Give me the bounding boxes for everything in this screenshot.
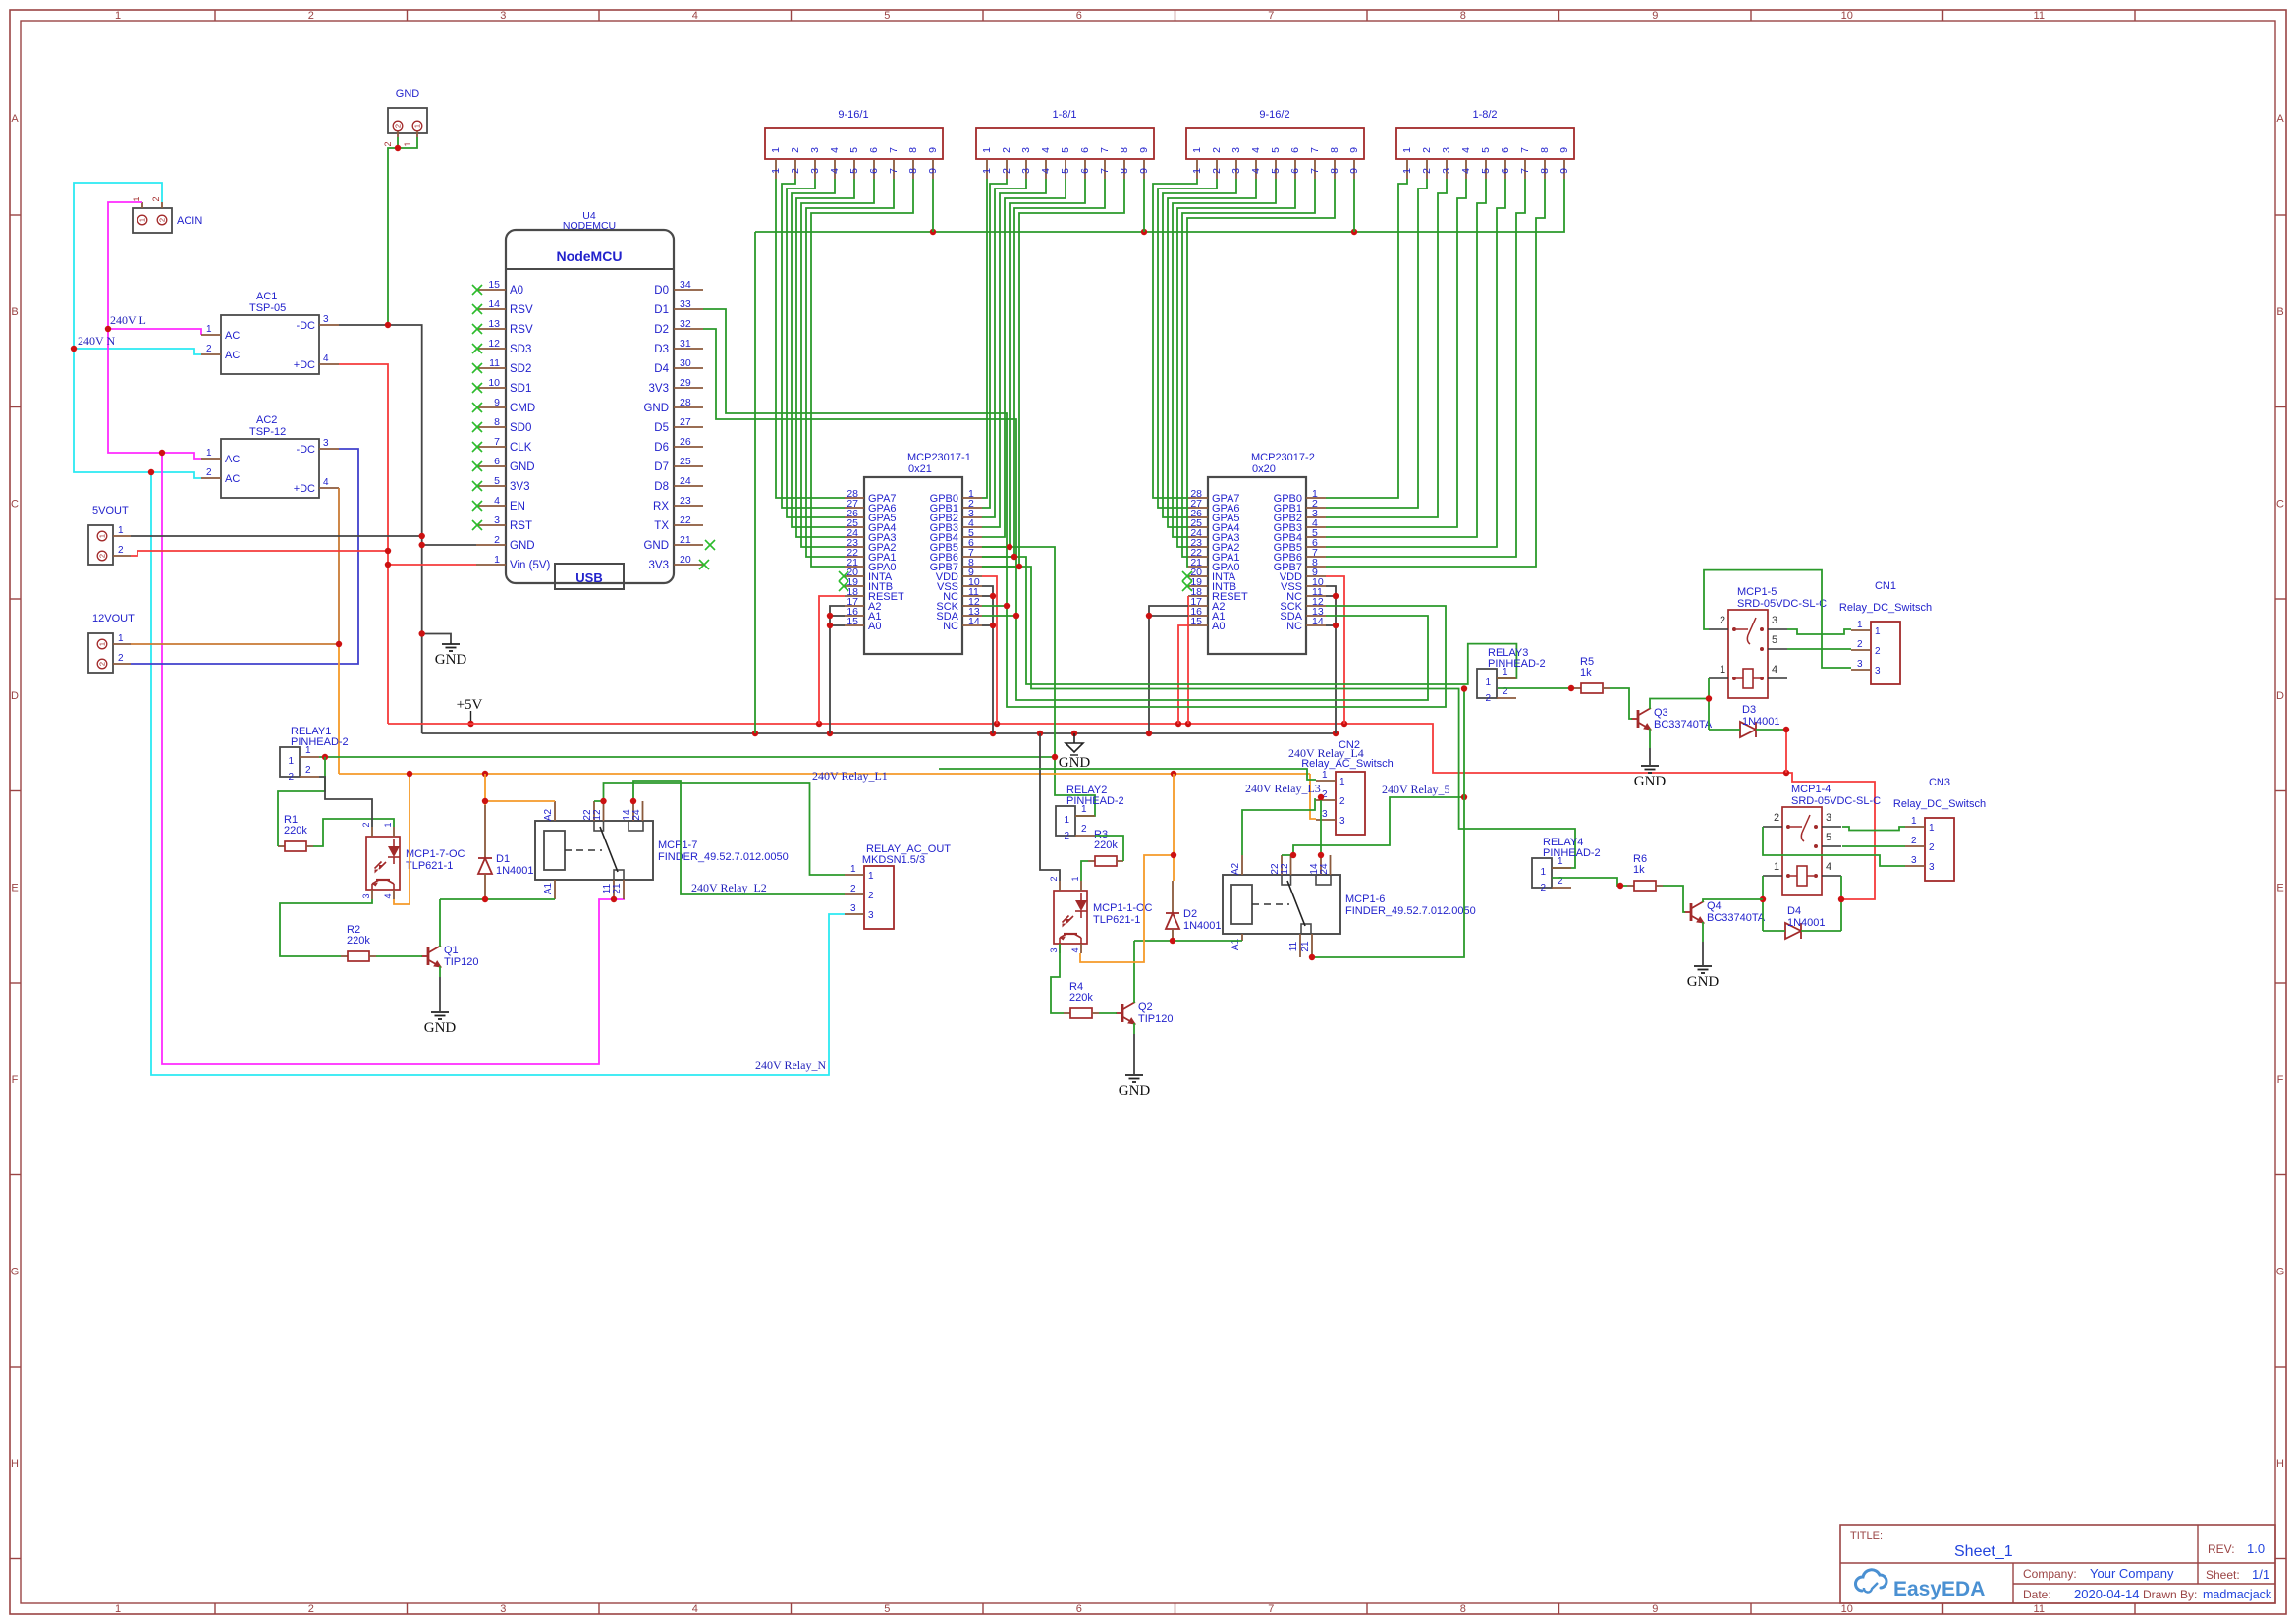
connector 5VOUT: [88, 505, 131, 565]
svg-text:5: 5: [1772, 634, 1777, 646]
wire H3 pin7 to MCP2 GPA: [1182, 179, 1315, 557]
svg-text:1: 1: [1774, 861, 1779, 873]
diode D1 1N4001: [478, 805, 534, 899]
svg-text:1N4001: 1N4001: [496, 865, 534, 877]
svg-text:G: G: [11, 1266, 20, 1277]
wire H4 pin2 to MCP2 GPB: [1326, 179, 1427, 508]
svg-text:220k: 220k: [284, 825, 307, 837]
junction 12v node: [336, 641, 342, 647]
wire L3: A2 to CN2 pin2: [1242, 799, 1316, 855]
svg-text:1: 1: [1558, 856, 1563, 867]
IC MCP23017-1 0x21: [839, 452, 982, 654]
svg-text:7: 7: [1309, 147, 1321, 153]
junction GND hdr: [395, 145, 401, 151]
svg-text:SRD-05VDC-SL-C: SRD-05VDC-SL-C: [1791, 795, 1881, 807]
svg-text:1-8/2: 1-8/2: [1472, 109, 1497, 121]
svg-text:11: 11: [1288, 941, 1299, 951]
svg-text:4: 4: [829, 147, 841, 153]
wire D3 left: [1709, 729, 1740, 731]
wire H2 pin7 to MCP1 GPB: [982, 179, 1105, 557]
svg-text:2: 2: [98, 554, 107, 558]
resistor R3 220k: [1088, 829, 1123, 866]
relay MCP1-6 FINDER: [1223, 855, 1476, 957]
wire MCP2 NC11 spur: [1326, 595, 1336, 597]
svg-text:Relay_DC_Switsch: Relay_DC_Switsch: [1839, 602, 1932, 614]
svg-text:240V Relay_N: 240V Relay_N: [755, 1058, 826, 1072]
transistor Q1 TIP120: [421, 945, 478, 968]
wire MCP1 RESET to +5V: [819, 596, 845, 724]
wire L1: relay contact to AC out pin1: [594, 783, 845, 875]
svg-text:240V L: 240V L: [110, 313, 146, 327]
svg-text:4: 4: [323, 353, 329, 364]
svg-text:32: 32: [680, 318, 691, 330]
junction L2: [630, 798, 636, 804]
svg-text:11: 11: [2034, 1603, 2045, 1615]
svg-text:2: 2: [868, 891, 874, 901]
svg-text:5: 5: [1060, 147, 1071, 153]
svg-text:1: 1: [118, 525, 124, 536]
svg-text:1: 1: [403, 141, 412, 146]
svg-text:1: 1: [1857, 620, 1863, 630]
wire SDA from D2: [703, 329, 1016, 616]
wire 12VOUT pin1: [131, 643, 339, 645]
svg-text:3: 3: [850, 903, 856, 914]
wire coil1 vertical: [1708, 678, 1710, 730]
svg-text:6: 6: [1079, 147, 1091, 153]
svg-text:8: 8: [1119, 147, 1130, 153]
svg-text:2: 2: [1064, 831, 1069, 841]
svg-text:2: 2: [790, 168, 801, 174]
net label 240V Relay_5: [1382, 783, 1449, 796]
wire A2 feed orange: [485, 800, 555, 802]
svg-text:FINDER_49.52.7.012.0050: FINDER_49.52.7.012.0050: [1345, 905, 1476, 917]
svg-text:1-8/1: 1-8/1: [1052, 109, 1076, 121]
svg-text:2: 2: [394, 124, 403, 128]
svg-text:9: 9: [1558, 147, 1570, 153]
svg-text:3: 3: [1441, 147, 1452, 153]
svg-text:A: A: [11, 113, 19, 125]
wire D4 right: [1801, 930, 1841, 932]
junction coil4: [1760, 896, 1844, 902]
svg-text:26: 26: [680, 436, 691, 448]
wire R1 to opto1 pin1: [313, 819, 394, 846]
svg-text:D7: D7: [654, 461, 669, 473]
svg-text:A0: A0: [510, 285, 523, 297]
svg-text:3: 3: [1772, 615, 1777, 626]
svg-text:EN: EN: [510, 501, 525, 513]
svg-text:TX: TX: [654, 520, 669, 532]
wire H3 pin6 to MCP2 GPA: [1177, 179, 1295, 547]
svg-text:3: 3: [1322, 809, 1328, 820]
wire relay5 bottom 11/21: [1312, 689, 1464, 958]
svg-text:PINHEAD-2: PINHEAD-2: [1066, 795, 1124, 807]
svg-text:AC1: AC1: [256, 291, 277, 302]
svg-text:3: 3: [1911, 855, 1917, 866]
junction r5c: [1309, 685, 1467, 960]
svg-text:4: 4: [1460, 168, 1472, 174]
wire opto2 pin4 orange: [1080, 855, 1174, 962]
junction AC nets: [71, 326, 165, 475]
svg-text:3: 3: [1441, 168, 1452, 174]
optocoupler MCP1-7-OC TLP621-1: [361, 822, 465, 899]
svg-text:RSV: RSV: [510, 324, 533, 336]
svg-text:4: 4: [1460, 147, 1472, 153]
svg-text:Vin (5V): Vin (5V): [510, 560, 551, 571]
wire MCP1-5 pin3 to CN1 pin1: [1787, 629, 1851, 634]
svg-text:A2: A2: [1230, 862, 1241, 875]
svg-text:1: 1: [981, 147, 993, 153]
svg-text:5: 5: [1060, 168, 1071, 174]
wire SDA to MCP2: [1016, 616, 1428, 700]
svg-text:MKDSN1.5/3: MKDSN1.5/3: [862, 854, 925, 866]
svg-text:2020-04-14: 2020-04-14: [2074, 1587, 2140, 1601]
svg-text:24: 24: [680, 475, 691, 487]
svg-text:5: 5: [884, 1603, 890, 1615]
svg-text:9: 9: [1138, 168, 1150, 174]
svg-text:TSP-12: TSP-12: [249, 426, 286, 438]
optocoupler MCP1-1-OC TLP621-1: [1049, 876, 1153, 953]
wire 240V N to AC1 pin2: [74, 349, 201, 354]
svg-text:D4: D4: [654, 363, 669, 375]
wire orange trunk: [339, 773, 1310, 775]
svg-text:21: 21: [612, 883, 623, 894]
svg-text:D2: D2: [654, 324, 669, 336]
wire 12V rail orange down: [338, 644, 340, 774]
svg-text:8: 8: [494, 416, 500, 428]
svg-text:0x21: 0x21: [908, 463, 932, 475]
wire Q4 emitter green: [1702, 922, 1704, 942]
svg-text:-DC: -DC: [296, 444, 315, 456]
svg-text:1: 1: [1070, 876, 1080, 881]
junction +5V: [467, 721, 473, 727]
svg-text:1: 1: [305, 745, 311, 756]
svg-text:EasyEDA: EasyEDA: [1893, 1578, 1985, 1600]
connector ACIN: [132, 196, 202, 233]
+5V symbol: [457, 697, 483, 724]
svg-text:7: 7: [1099, 147, 1111, 153]
svg-text:D8: D8: [654, 481, 669, 493]
svg-text:MCP1-7: MCP1-7: [658, 839, 697, 851]
wire H2 pin6 to MCP1 GPB: [982, 179, 1085, 547]
ground symbol Q4: [1687, 966, 1720, 990]
svg-text:2: 2: [383, 141, 393, 146]
svg-text:GND: GND: [1687, 974, 1720, 990]
wire trunk drop to GND rail: [754, 232, 756, 733]
junction d2 top: [1171, 852, 1176, 858]
wire ACIN pin2 240V N: [74, 183, 201, 478]
power module AC2 TSP-12: [201, 414, 339, 498]
svg-text:6: 6: [868, 147, 880, 153]
wire H3 pin1 to MCP2 GPA: [1153, 179, 1197, 498]
svg-text:9: 9: [1652, 1603, 1658, 1615]
svg-text:RSV: RSV: [510, 304, 533, 316]
wire H2 pin1 to MCP1 GPB: [982, 179, 987, 498]
svg-text:9: 9: [1348, 147, 1360, 153]
svg-text:34: 34: [680, 279, 691, 291]
wire MCP1 A0 spur: [830, 624, 845, 626]
wire opto2 pin3 to R4: [1051, 944, 1064, 1013]
svg-text:FINDER_49.52.7.012.0050: FINDER_49.52.7.012.0050: [658, 851, 789, 863]
wire coil4 vertical 2: [1840, 876, 1842, 931]
svg-text:1: 1: [1911, 816, 1917, 827]
svg-text:5: 5: [848, 147, 860, 153]
svg-text:2: 2: [1485, 693, 1491, 704]
svg-text:1: 1: [1191, 147, 1203, 153]
wire RELAY4 pin2 to R6: [1552, 878, 1627, 886]
svg-text:3: 3: [500, 1603, 506, 1615]
svg-text:33: 33: [680, 298, 691, 310]
wire R5 to Q3 base: [1610, 688, 1632, 719]
svg-text:12: 12: [1280, 863, 1290, 875]
wire GND rail: [422, 732, 1336, 734]
svg-text:4: 4: [1040, 168, 1052, 174]
svg-text:ACIN: ACIN: [177, 215, 202, 227]
svg-text:6: 6: [868, 168, 880, 174]
svg-text:3: 3: [1049, 947, 1059, 952]
svg-text:29: 29: [680, 377, 691, 389]
wire R2 to Q1 base: [376, 955, 422, 957]
svg-text:3: 3: [1826, 812, 1831, 824]
svg-text:6: 6: [494, 456, 500, 467]
svg-text:A0: A0: [1212, 621, 1225, 632]
svg-text:11: 11: [489, 357, 500, 369]
wire Q2 emitter dark: [1133, 1034, 1135, 1074]
IC MCP23017-2 0x20: [1182, 452, 1326, 654]
svg-text:15: 15: [847, 616, 858, 627]
diode D3 1N4001: [1740, 704, 1780, 737]
wire L4: long to CN2 pin1: [939, 769, 1316, 780]
svg-text:CMD: CMD: [510, 403, 535, 414]
wire H2 pin3 to MCP1 GPB: [982, 179, 1026, 517]
wire MCP2 A2/A1 to GND: [1149, 606, 1188, 733]
svg-text:RX: RX: [653, 501, 669, 513]
svg-text:1: 1: [1064, 815, 1069, 826]
junction d3: [1783, 727, 1789, 732]
svg-text:22: 22: [680, 514, 691, 526]
connector CN1 Relay_DC_Switsch: [1839, 580, 1932, 684]
junction r5b: [1318, 794, 1467, 858]
svg-text:AC: AC: [225, 454, 240, 465]
power module AC1 TSP-05: [201, 291, 339, 374]
svg-text:2: 2: [1720, 615, 1725, 626]
svg-text:4: 4: [1826, 861, 1831, 873]
svg-text:GND: GND: [643, 540, 669, 552]
wire AC2 +DC to 12V pin1: [338, 488, 340, 644]
wire MCP2 RESET to +5V: [1187, 596, 1189, 724]
svg-text:10: 10: [1841, 1603, 1853, 1615]
wire MCP1 A1 spur: [830, 615, 845, 617]
junction r5 in: [1568, 685, 1574, 691]
svg-text:PINHEAD-2: PINHEAD-2: [1543, 847, 1601, 859]
svg-text:BC33740TA: BC33740TA: [1707, 912, 1766, 924]
svg-text:5: 5: [848, 168, 860, 174]
svg-text:5VOUT: 5VOUT: [92, 505, 129, 516]
wire R6 to Q4 base: [1663, 886, 1685, 912]
wire AC1 +DC: [339, 364, 388, 724]
svg-text:2: 2: [288, 772, 294, 783]
wire MCP2 VSS chain: [1326, 586, 1336, 733]
svg-text:1: 1: [1322, 770, 1328, 781]
svg-text:+5V: +5V: [457, 697, 483, 713]
svg-text:2: 2: [158, 218, 167, 222]
svg-text:1: 1: [383, 822, 393, 827]
wire H4 pin4 to MCP2 GPB: [1326, 179, 1466, 527]
net label 240V Relay_L1: [812, 769, 888, 783]
svg-text:7: 7: [1519, 147, 1531, 153]
svg-text:AC: AC: [225, 350, 240, 361]
svg-text:AC: AC: [225, 473, 240, 485]
junction r5a: [1290, 852, 1296, 858]
wire H2 pin5 to MCP1 GPB: [982, 179, 1066, 537]
wire 5VOUT pin1 GND net: [131, 535, 422, 537]
wire GND sym branch: [422, 634, 451, 643]
svg-text:madmacjack: madmacjack: [2203, 1588, 2272, 1601]
transistor Q4 BC33740TA: [1684, 900, 1766, 924]
svg-text:3: 3: [361, 893, 371, 898]
svg-text:1: 1: [1503, 667, 1508, 677]
svg-text:G: G: [2276, 1266, 2285, 1277]
svg-text:E: E: [2276, 882, 2283, 893]
svg-text:MCP1-7-OC: MCP1-7-OC: [406, 848, 465, 860]
junction rail joints: [816, 721, 1789, 776]
wire RELAY2 pin2 to R3: [1095, 836, 1123, 861]
svg-text:4: 4: [494, 495, 500, 507]
svg-text:H: H: [2276, 1458, 2284, 1470]
resistor R6 1k: [1627, 853, 1663, 891]
wire SCK from D1: [703, 309, 1007, 606]
wire Q2 collector: [1133, 941, 1135, 1003]
svg-text:Company:: Company:: [2023, 1567, 2077, 1581]
connector CN3 Relay_DC_Switsch: [1893, 777, 1986, 881]
wire H4 pin7 to MCP2 GPB: [1326, 179, 1525, 557]
svg-text:8: 8: [1119, 168, 1130, 174]
svg-text:9: 9: [1348, 168, 1360, 174]
svg-text:D3: D3: [1742, 704, 1756, 716]
wire MCP1 GPB7 to RELAY4: [982, 567, 1575, 868]
svg-text:9: 9: [927, 147, 939, 153]
wire ACIN pin1 240V L: [108, 202, 201, 335]
net label 240V Relay_L4: [1288, 746, 1364, 760]
svg-text:F: F: [2277, 1074, 2284, 1086]
svg-text:TITLE:: TITLE:: [1850, 1530, 1883, 1542]
svg-text:1: 1: [770, 168, 782, 174]
svg-text:9: 9: [1138, 147, 1150, 153]
svg-text:10: 10: [1841, 10, 1853, 22]
wire MCP2 A0 to +5V: [1178, 625, 1188, 724]
connector GND header: [383, 88, 427, 147]
wire H1 pin1 to MCP1 GPA: [776, 179, 845, 498]
svg-text:11: 11: [2034, 10, 2045, 22]
svg-text:1: 1: [981, 168, 993, 174]
svg-text:7: 7: [888, 147, 900, 153]
svg-text:1: 1: [132, 196, 141, 201]
svg-text:0x20: 0x20: [1252, 463, 1276, 475]
svg-text:2: 2: [118, 653, 124, 664]
junction gnd rail joints: [752, 731, 1339, 736]
svg-text:13: 13: [488, 318, 500, 330]
svg-text:7: 7: [1099, 168, 1111, 174]
svg-text:Q2: Q2: [1138, 1001, 1153, 1013]
svg-text:5: 5: [1270, 147, 1282, 153]
wire Q4 collector: [1703, 899, 1763, 902]
junction r6 in: [1617, 883, 1623, 889]
wire MCP2 A1 spur: [1149, 615, 1188, 617]
wire H1 pin6 to MCP1 GPA: [801, 179, 874, 547]
svg-text:3: 3: [1929, 862, 1935, 873]
svg-text:30: 30: [680, 357, 691, 369]
svg-text:220k: 220k: [347, 935, 370, 947]
svg-text:1: 1: [1191, 168, 1203, 174]
wire D3 right: [1756, 729, 1786, 731]
svg-text:-DC: -DC: [296, 320, 315, 332]
svg-text:4: 4: [692, 10, 698, 22]
wire H3 pin2 to MCP2 GPA: [1158, 179, 1217, 508]
svg-text:8: 8: [1460, 10, 1466, 22]
svg-text:2: 2: [1911, 836, 1917, 846]
svg-text:1: 1: [138, 218, 147, 222]
svg-text:7: 7: [1268, 10, 1274, 22]
svg-text:+DC: +DC: [294, 483, 315, 495]
junction gpb6: [1011, 554, 1017, 560]
junction supply: [322, 544, 1058, 760]
wire opto1 pin4 orange: [394, 774, 410, 904]
svg-text:3V3: 3V3: [649, 560, 669, 571]
svg-text:5: 5: [494, 475, 500, 487]
svg-text:7: 7: [1519, 168, 1531, 174]
svg-text:5: 5: [1270, 168, 1282, 174]
relay MCP1-4 SRD-05VDC-SL-C: [1763, 784, 1881, 895]
svg-text:2: 2: [98, 662, 107, 666]
wire MCP1 NC11 spur: [982, 595, 993, 597]
wire 240V L down: [108, 329, 201, 459]
wire MCP1-5 pin2 loop to CN1 pin3: [1704, 570, 1851, 668]
svg-text:3: 3: [809, 147, 821, 153]
svg-text:MCP1-5: MCP1-5: [1737, 586, 1777, 598]
svg-text:2: 2: [1001, 168, 1012, 174]
svg-text:1/1: 1/1: [2252, 1567, 2269, 1582]
svg-text:3: 3: [1339, 816, 1345, 827]
resistor R2 220k: [341, 924, 376, 961]
wire H1 pin2 to MCP1 GPA: [782, 179, 845, 508]
svg-text:240V N: 240V N: [78, 334, 115, 348]
svg-text:24: 24: [1319, 863, 1330, 875]
resistor R1 220k: [278, 814, 313, 851]
svg-text:240V Relay_L2: 240V Relay_L2: [691, 881, 767, 894]
svg-text:E: E: [11, 882, 18, 893]
relay MCP1-7 FINDER: [535, 801, 789, 899]
wire coil A1 line 2: [1134, 940, 1242, 942]
diode D4 1N4001: [1785, 905, 1826, 939]
wire H1 pin3 to MCP1 GPA: [787, 179, 845, 517]
svg-text:REV:: REV:: [2208, 1543, 2235, 1556]
wire NodeMCU GND pin2: [422, 544, 476, 546]
connector RELAY4 PINHEAD-2: [1532, 837, 1601, 893]
junction a2 tap: [482, 798, 488, 804]
junction sda: [1013, 613, 1019, 619]
svg-text:Q1: Q1: [444, 945, 459, 956]
svg-text:A1: A1: [543, 882, 554, 894]
svg-text:1: 1: [1339, 777, 1345, 787]
wire H2 pin8 to MCP1 GPB: [982, 179, 1124, 567]
svg-text:D1: D1: [654, 304, 669, 316]
svg-text:240V Relay_5: 240V Relay_5: [1382, 783, 1449, 796]
IC U4 NodeMCU: [472, 210, 715, 589]
wire opto1 pin3 to R2: [280, 899, 372, 956]
svg-text:1: 1: [1401, 147, 1413, 153]
wire relay5 contact 12/22: [1282, 797, 1464, 855]
svg-text:1: 1: [288, 756, 294, 767]
svg-text:CN1: CN1: [1875, 580, 1896, 592]
